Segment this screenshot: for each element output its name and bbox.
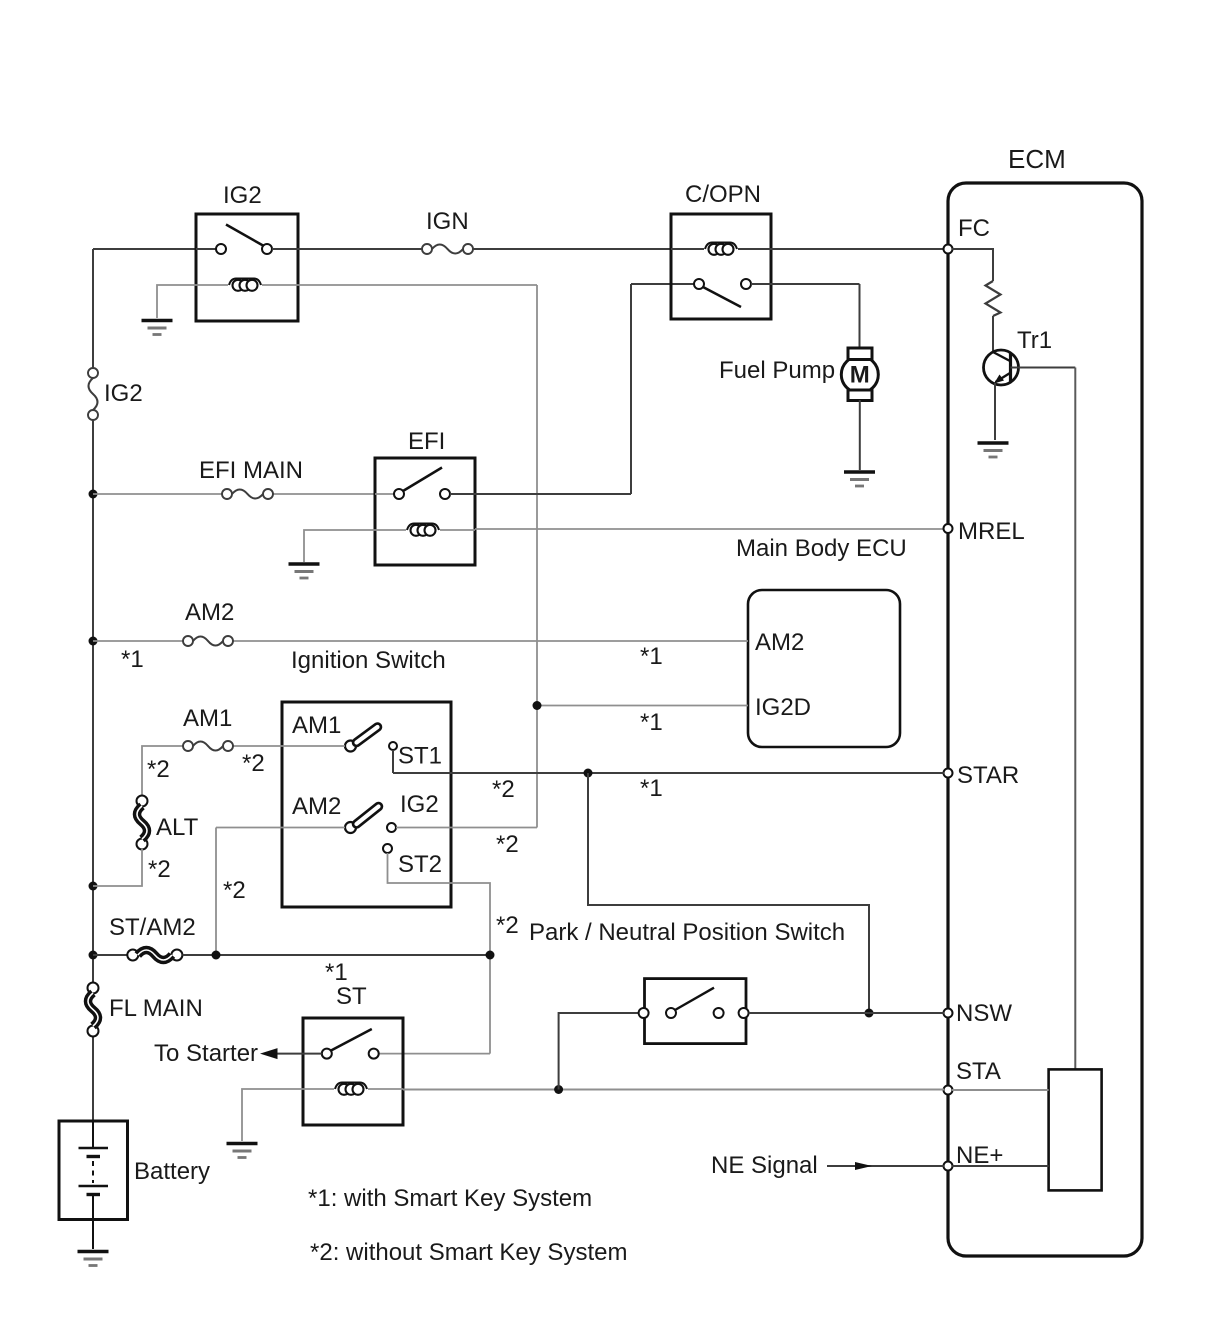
wire IG2 relay feed (rail top corner to IG2 relay) (93, 248, 196, 250)
svg-text:ECM: ECM (1008, 144, 1066, 174)
key blade AM1 (357, 727, 378, 743)
wire IG2 coil to ground (157, 285, 196, 318)
wire into EFI relay left contact (375, 493, 394, 495)
svg-text:*2: *2 (148, 856, 171, 883)
fusible link FL MAIN (88, 983, 99, 994)
wire ST coil to STA terminal (403, 1089, 944, 1091)
transistor Tr1 (984, 350, 1019, 385)
svg-text:IGN: IGN (426, 208, 469, 235)
svg-text:NE Signal: NE Signal (711, 1152, 818, 1179)
svg-text:Main Body ECU: Main Body ECU (736, 535, 907, 562)
wire STA terminal to driver (952, 1089, 1049, 1091)
svg-text:EFI MAIN: EFI MAIN (199, 457, 303, 484)
svg-text:FC: FC (958, 215, 990, 242)
svg-text:AM2: AM2 (185, 599, 234, 626)
wire IGN run (IG2 relay to C/OPN coil) (272, 248, 422, 250)
svg-text:AM2: AM2 (292, 793, 341, 820)
relay ST switch contacts (322, 1049, 332, 1059)
wire park/neutral to NSW terminal (749, 1012, 944, 1014)
wire NE Signal with arrow (827, 1165, 944, 1167)
fuse AM1 (183, 741, 193, 751)
wire EFI coil to MREL terminal (475, 528, 944, 530)
wire ST2 run to ST relay (388, 853, 491, 1054)
relay ST switch blade (331, 1029, 372, 1051)
junction STA/park-neutral switch (554, 1085, 563, 1094)
switch park/neutral box (645, 979, 747, 1044)
wire To Starter with arrow (277, 1053, 322, 1055)
svg-text:Battery: Battery (134, 1158, 210, 1185)
svg-text:Ignition Switch: Ignition Switch (291, 647, 446, 674)
terminal NSW (944, 1009, 953, 1018)
ground EFI relay coil (289, 562, 320, 566)
svg-text:C/OPN: C/OPN (685, 181, 761, 208)
ground fuel pump (844, 470, 875, 474)
block Main Body ECU box (748, 590, 900, 747)
svg-text:FL MAIN: FL MAIN (109, 995, 203, 1022)
relay C/OPN switch blade (703, 287, 741, 307)
contact AM1 (345, 741, 356, 752)
wire into IG2 relay left contact (196, 248, 216, 250)
relay C/OPN box (671, 214, 771, 319)
svg-text:ALT: ALT (156, 814, 199, 841)
wire Tr1 emitter to ground (994, 383, 996, 440)
block ECM internal driver (1049, 1069, 1102, 1190)
svg-text:NE+: NE+ (956, 1142, 1003, 1169)
svg-text:*2: *2 (496, 912, 519, 939)
relay EFI switch blade (403, 468, 442, 492)
contact ST2 (383, 844, 392, 853)
fusible link ST/AM2 (93, 954, 127, 956)
battery B1 (59, 1121, 128, 1220)
terminal FC (944, 245, 953, 254)
junction NSW branch (865, 1009, 874, 1018)
motor fuel pump (841, 356, 878, 393)
wire AM2 contact run (216, 827, 345, 829)
relay EFI box (375, 458, 475, 565)
wire IG2D run (537, 705, 748, 707)
switch park/neutral contacts (639, 1008, 649, 1018)
wire park/neutral switch to STA wire (559, 1013, 639, 1090)
switch Ignition Switch box (282, 702, 451, 907)
terminal STA (944, 1086, 953, 1095)
ground Tr1 emitter (978, 441, 1009, 445)
relay ST coil (303, 1088, 334, 1090)
junction rail/ALT branch (89, 882, 98, 891)
svg-text:STA: STA (956, 1058, 1001, 1085)
svg-text:*2: *2 (492, 776, 515, 803)
terminal STAR (944, 769, 953, 778)
svg-text:M: M (850, 362, 870, 389)
relay EFI coil (375, 529, 406, 531)
terminal MREL (944, 524, 953, 533)
contact IG2 (387, 823, 396, 832)
junction rail/ST-AM2 (89, 951, 98, 960)
junction ST2-wire/ST-AM2 wire (212, 951, 221, 960)
fuse EFI MAIN (222, 489, 232, 499)
svg-text:*2: *2 (496, 831, 519, 858)
resistor (FC pull-up) (986, 281, 1001, 316)
junction IG2D/IG2-coil line (533, 701, 542, 710)
wire IG2 contact to coil line (396, 827, 537, 829)
svg-text:*1: *1 (121, 646, 144, 673)
svg-text:Fuel Pump: Fuel Pump (719, 357, 835, 384)
relay IG2 coil (196, 284, 228, 286)
junction rail/AM2 (89, 637, 98, 646)
junction STAR branch (584, 769, 593, 778)
svg-text:Tr1: Tr1 (1017, 327, 1052, 354)
svg-text:ST/AM2: ST/AM2 (109, 914, 196, 941)
contact ST1 (389, 742, 397, 750)
svg-text:ST1: ST1 (398, 743, 442, 770)
wire EFI switch to C/OPN switch (450, 493, 631, 495)
wire ST coil to ground (242, 1089, 303, 1141)
svg-text:EFI: EFI (408, 428, 445, 455)
svg-text:MREL: MREL (958, 518, 1025, 545)
relay C/OPN switch contacts (694, 279, 704, 289)
fusible link ALT (137, 796, 148, 807)
relay C/OPN coil (in IGN-FC run) (671, 248, 704, 250)
svg-text:ST2: ST2 (398, 851, 442, 878)
key blade AM2 (357, 807, 379, 825)
wire C/OPN switch to fuel pump (751, 283, 860, 285)
wire ST1 to STAR terminal (392, 750, 394, 773)
fuse IG2 (on rail) (88, 368, 98, 378)
wire FC to resistor (952, 249, 993, 281)
wire NE+ terminal to driver (952, 1165, 1049, 1167)
svg-text:AM2: AM2 (755, 629, 804, 656)
svg-text:*2: *2 (242, 750, 265, 777)
svg-text:*1: *1 (640, 643, 663, 670)
relay EFI switch contacts (394, 489, 404, 499)
relay ST box (303, 1018, 403, 1125)
wire C/OPN coil to FC terminal (771, 248, 944, 250)
ground ST relay coil (227, 1142, 258, 1146)
terminal NE+ (944, 1162, 953, 1171)
ground IG2 relay coil (142, 319, 173, 323)
wire EFI MAIN run (93, 493, 222, 495)
ECM box (948, 183, 1142, 1256)
svg-text:*2: *2 (223, 877, 246, 904)
relay IG2 box (196, 214, 298, 321)
svg-text:IG2D: IG2D (755, 694, 811, 721)
ground battery (78, 1250, 109, 1254)
wire Tr1 base from internal driver (1011, 367, 1076, 369)
svg-text:*1: with Smart Key System: *1: with Smart Key System (308, 1185, 592, 1212)
wire battery positive rail (vertical, battery to IG2 feed) (92, 249, 94, 368)
svg-text:*1: *1 (640, 775, 663, 802)
svg-text:IG2: IG2 (400, 791, 439, 818)
svg-text:*1: *1 (325, 959, 348, 986)
svg-text:NSW: NSW (956, 1000, 1012, 1027)
relay IG2 switch contacts (216, 244, 226, 254)
svg-text:To Starter: To Starter (154, 1040, 258, 1067)
svg-text:AM1: AM1 (183, 705, 232, 732)
fuse AM2 (183, 636, 193, 646)
wire ALT to rail (93, 849, 142, 886)
svg-text:AM1: AM1 (292, 712, 341, 739)
svg-text:*2: without Smart Key System: *2: without Smart Key System (310, 1239, 627, 1266)
wire fuel pump to ground (859, 400, 861, 470)
switch park/neutral blade (675, 988, 714, 1010)
svg-text:*2: *2 (147, 756, 170, 783)
contact AM2 (345, 822, 356, 833)
junction rail/EFI MAIN (89, 490, 98, 499)
wire STAR branch to NSW (588, 773, 869, 1013)
wire AM1 run (ALT to AM1 contact) (142, 746, 183, 796)
svg-text:IG2: IG2 (223, 182, 262, 209)
svg-text:ST: ST (336, 983, 367, 1010)
wire EFI coil to ground (304, 530, 375, 562)
fuse IGN (422, 244, 432, 254)
svg-text:*1: *1 (640, 709, 663, 736)
wire IG2 relay coil to IG2D/IG2 contact (vertical) (298, 284, 537, 286)
relay IG2 switch blade (226, 225, 263, 246)
wire battery negative to ground (92, 1220, 94, 1250)
svg-text:STAR: STAR (957, 762, 1019, 789)
svg-text:Park / Neutral Position Switch: Park / Neutral Position Switch (529, 919, 845, 946)
svg-text:IG2: IG2 (104, 380, 143, 407)
wire AM2 run (rail to Main Body ECU AM2) (93, 640, 183, 642)
